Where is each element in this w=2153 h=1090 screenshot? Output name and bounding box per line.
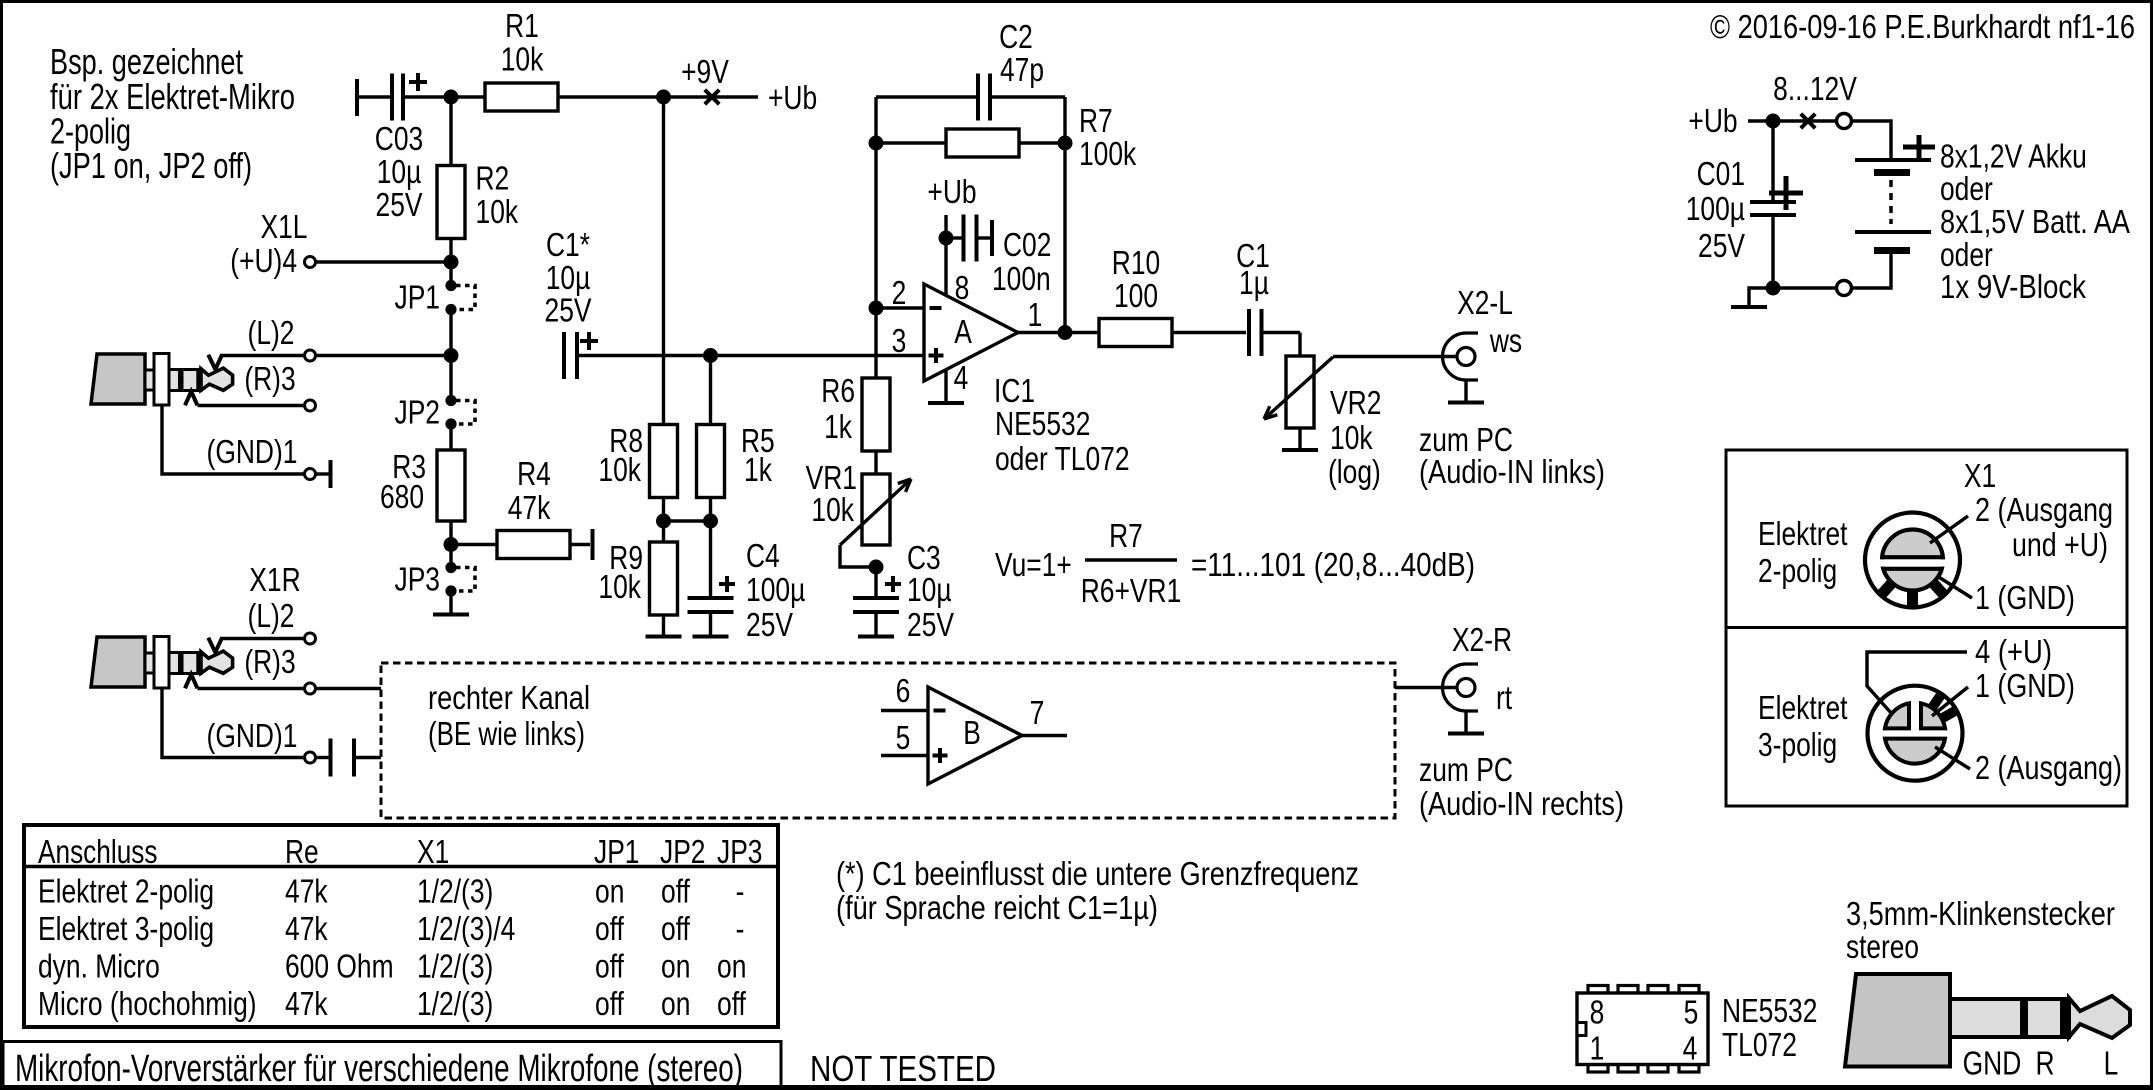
svg-text:X2-R: X2-R: [1452, 621, 1512, 658]
svg-text:A: A: [954, 313, 972, 350]
svg-text:6: 6: [896, 672, 911, 709]
svg-text:L: L: [2104, 1045, 2119, 1082]
pin line 2 Ausgang bottom: [1935, 747, 2122, 786]
resistor R4: [451, 455, 593, 560]
svg-text:1/2/(3): 1/2/(3): [417, 873, 493, 910]
wire feedback left vertical: [874, 97, 877, 143]
connector X2-L: [1443, 284, 1523, 403]
label IC1: [994, 372, 1130, 477]
svg-text:VR2: VR2: [1330, 384, 1381, 421]
dashed box right channel: [381, 663, 1395, 818]
svg-text:off: off: [595, 985, 625, 1022]
svg-text:10µ: 10µ: [546, 259, 591, 296]
pin line 1 GND bottom: [1932, 667, 2075, 716]
svg-text:Mikrofon-Vorverstärker für ver: Mikrofon-Vorverstärker für verschiedene …: [15, 1048, 743, 1090]
resistor R2: [437, 97, 518, 262]
capacitor C4: [688, 521, 806, 643]
capacitor C01: [1686, 121, 1803, 288]
svg-text:dyn. Micro: dyn. Micro: [38, 948, 160, 985]
svg-text:GND: GND: [1963, 1045, 2022, 1082]
svg-text:600 Ohm: 600 Ohm: [285, 948, 394, 985]
svg-text:on: on: [595, 873, 624, 910]
svg-text:(L)2: (L)2: [248, 314, 295, 351]
svg-text:X1R: X1R: [249, 561, 300, 598]
svg-text:X1: X1: [1964, 457, 1996, 494]
wire pin2 node down to R6: [874, 308, 877, 378]
Elektret 2-polig connector drawing: [1865, 513, 1960, 608]
label Elektret 2-polig: [1758, 515, 1848, 589]
op-amp A pin 4 ground: [928, 359, 968, 403]
svg-text:10µ: 10µ: [377, 153, 422, 190]
svg-text:680: 680: [380, 478, 424, 515]
resistor R5: [697, 356, 775, 498]
svg-text:on: on: [661, 948, 690, 985]
svg-text:off: off: [595, 910, 625, 947]
svg-text:X2-L: X2-L: [1457, 284, 1513, 321]
svg-text:25V: 25V: [545, 292, 592, 329]
ground below VR2: [1282, 448, 1318, 452]
svg-text:(R)3: (R)3: [244, 360, 295, 397]
svg-text:JP2: JP2: [395, 394, 441, 431]
svg-text:10k: 10k: [476, 193, 519, 230]
svg-text:C01: C01: [1697, 155, 1745, 192]
ground supply: [1731, 288, 1773, 307]
title box: [3, 1042, 781, 1090]
svg-text:B: B: [963, 714, 981, 751]
svg-text:+Ub: +Ub: [927, 173, 976, 210]
svg-text:R6+VR1: R6+VR1: [1081, 572, 1182, 609]
X1R tip contact chevron: [208, 638, 222, 653]
svg-text:25V: 25V: [1698, 227, 1745, 264]
svg-text:R4: R4: [517, 455, 551, 492]
svg-text:(JP1 on, JP2 off): (JP1 on, JP2 off): [50, 145, 252, 186]
op-amp A pin 8 supply: [927, 173, 976, 306]
svg-text:47k: 47k: [285, 873, 328, 910]
resistor R9: [598, 521, 677, 635]
wire X1L (R)3: [198, 360, 316, 411]
svg-text:47k: 47k: [508, 489, 551, 526]
battery options text: [1940, 138, 2130, 306]
svg-text:8...12V: 8...12V: [1773, 70, 1857, 107]
node C01 bottom junction: [1766, 281, 1781, 296]
svg-text:10k: 10k: [501, 41, 544, 78]
ground below C4: [693, 635, 729, 639]
svg-text:off: off: [595, 948, 625, 985]
op-amp U1A: [924, 284, 1018, 381]
+9V supply terminal: [664, 53, 759, 104]
wire feedback right vertical: [1063, 97, 1066, 143]
node C02 junction: [939, 231, 954, 246]
svg-text:(BE wie links): (BE wie links): [428, 715, 585, 752]
wire X1L (L)2: [220, 314, 451, 361]
svg-text:8: 8: [1590, 994, 1605, 1031]
connection table: [24, 825, 778, 1027]
wire node to op-amp pin3: [711, 354, 925, 357]
battery cells: [1855, 135, 1935, 251]
svg-text:3: 3: [892, 322, 907, 359]
gain formula: [995, 517, 1475, 609]
svg-text:(*) C1 beeinflusst die untere: (*) C1 beeinflusst die untere Grenzfrequ…: [836, 855, 1359, 892]
wire X1R (L)2: [220, 561, 316, 644]
svg-text:8: 8: [955, 269, 970, 306]
svg-text:NE5532: NE5532: [1722, 992, 1817, 1029]
svg-text:8x1,2V Akku: 8x1,2V Akku: [1940, 138, 2087, 175]
svg-text:4: 4: [1683, 1030, 1698, 1067]
svg-text:und +U): und +U): [2012, 526, 2108, 563]
svg-text:47p: 47p: [1000, 51, 1044, 88]
svg-text:Elektret 2-polig: Elektret 2-polig: [38, 873, 214, 910]
node R5 top junction: [703, 348, 718, 363]
Elektret pinout box: [1726, 450, 2127, 806]
svg-text:2 (Ausgang): 2 (Ausgang): [1975, 749, 2122, 786]
svg-text:4 (+U): 4 (+U): [1975, 633, 2052, 670]
X1L tip contact chevron: [208, 355, 222, 370]
note C1 footnote: [836, 855, 1359, 926]
svg-text:4: 4: [954, 359, 969, 396]
svg-text:10k: 10k: [1330, 419, 1373, 456]
jumper JP2: [395, 356, 476, 451]
wire X1L (GND)1: [162, 406, 331, 488]
wire return to C01: [1773, 286, 1836, 289]
svg-text:=11...101 (20,8...40dB): =11...101 (20,8...40dB): [1191, 546, 1475, 583]
svg-text:(R)3: (R)3: [244, 643, 295, 680]
svg-text:NOT TESTED: NOT TESTED: [810, 1048, 996, 1089]
node R3/R4 junction: [444, 537, 459, 552]
svg-text:+Ub: +Ub: [1688, 102, 1737, 139]
label rechter Kanal: [428, 679, 590, 752]
capacitor C03: [357, 73, 451, 223]
svg-text:10k: 10k: [598, 568, 641, 605]
svg-text:10µ: 10µ: [907, 571, 952, 608]
svg-text:off: off: [717, 985, 747, 1022]
svg-text:3-polig: 3-polig: [1758, 726, 1837, 763]
IC package NE5532 DIP-8: [1577, 986, 1708, 1073]
svg-text:off: off: [661, 910, 691, 947]
potentiometer VR2: [1264, 333, 1381, 491]
svg-text:1x 9V-Block: 1x 9V-Block: [1940, 268, 2086, 305]
svg-text:Elektret 3-polig: Elektret 3-polig: [38, 910, 214, 947]
svg-text:oder TL072: oder TL072: [995, 440, 1130, 477]
svg-text:-: -: [736, 873, 745, 910]
svg-text:© 2016-09-16 P.E.Burkhardt nf1: © 2016-09-16 P.E.Burkhardt nf1-16: [1710, 8, 2135, 45]
resistor R10: [1099, 244, 1246, 347]
node R7 right: [1058, 136, 1073, 151]
jumper JP3: [395, 545, 476, 598]
svg-text:C4: C4: [746, 537, 780, 574]
svg-text:R7: R7: [1109, 517, 1143, 554]
svg-text:JP3: JP3: [395, 561, 441, 598]
svg-text:Micro (hochohmig): Micro (hochohmig): [38, 985, 257, 1022]
battery connector plug circle top: [1837, 114, 1852, 129]
node C01 top junction: [1766, 114, 1781, 129]
svg-text:100k: 100k: [1079, 135, 1137, 172]
node divider junction left: [656, 514, 671, 529]
svg-text:C02: C02: [1003, 226, 1051, 263]
svg-text:10k: 10k: [811, 491, 854, 528]
node pin2 junction: [869, 301, 884, 316]
svg-text:Elektret: Elektret: [1758, 515, 1848, 552]
svg-text:3,5mm-Klinkenstecker: 3,5mm-Klinkenstecker: [1846, 895, 2115, 932]
svg-text:100µ: 100µ: [746, 571, 805, 608]
label 3,5mm-Klinkenstecker: [1846, 895, 2115, 965]
resistor R8: [598, 422, 677, 498]
svg-text:2 (Ausgang: 2 (Ausgang: [1975, 491, 2113, 528]
svg-text:TL072: TL072: [1722, 1026, 1797, 1063]
note text block top-left: [50, 41, 295, 186]
jumper JP1: [395, 262, 476, 356]
svg-text:rt: rt: [1496, 679, 1512, 716]
wire to battery plus: [1852, 121, 1891, 160]
svg-text:1: 1: [1590, 1030, 1605, 1067]
svg-text:(log): (log): [1328, 453, 1381, 490]
svg-text:1/2/(3): 1/2/(3): [417, 948, 493, 985]
wire +Ub to battery: [1748, 70, 1857, 128]
pin line 1 GND top: [1937, 576, 2075, 616]
capacitor C3: [853, 539, 954, 643]
wire X1R (GND)1: [162, 689, 381, 777]
wire +9V rail down to R8: [662, 97, 665, 425]
svg-text:(+U)4: (+U)4: [230, 242, 297, 279]
label NE5532 TL072: [1722, 992, 1817, 1063]
wire C1* to node: [579, 354, 711, 357]
copyright text: [1710, 8, 2135, 45]
wire pin2: [876, 306, 924, 309]
svg-text:C03: C03: [375, 120, 423, 157]
svg-text:off: off: [661, 873, 691, 910]
label +Ub left: [768, 79, 817, 116]
svg-text:100: 100: [1114, 277, 1158, 314]
node R7 left: [869, 136, 884, 151]
ground below R9: [646, 635, 682, 639]
wire VR2 wiper to X2-L: [1333, 355, 1457, 358]
svg-text:zum PC: zum PC: [1419, 751, 1513, 788]
svg-text:on: on: [717, 948, 746, 985]
svg-text:Vu=1+: Vu=1+: [995, 546, 1072, 583]
svg-text:1k: 1k: [744, 451, 772, 488]
svg-text:rechter Kanal: rechter Kanal: [428, 679, 590, 716]
svg-text:-: -: [736, 910, 745, 947]
svg-text:(GND)1: (GND)1: [207, 433, 298, 470]
svg-text:X1: X1: [417, 833, 449, 870]
svg-text:+Ub: +Ub: [768, 79, 817, 116]
svg-text:NE5532: NE5532: [995, 405, 1090, 442]
label Elektret 3-polig: [1758, 689, 1848, 763]
svg-text:IC1: IC1: [994, 372, 1035, 409]
X1L ring contact chevron: [185, 391, 197, 405]
svg-text:R10: R10: [1112, 244, 1160, 281]
connector X1L pin 4 terminal: [230, 208, 451, 279]
svg-text:JP2: JP2: [660, 833, 706, 870]
svg-text:Anschluss: Anschluss: [38, 833, 158, 870]
svg-text:1/2/(3)/4: 1/2/(3)/4: [417, 910, 515, 947]
capacitor C2: [876, 18, 1065, 121]
label zum PC rechts: [1419, 751, 1624, 822]
svg-text:25V: 25V: [376, 186, 423, 223]
node +9V rail junction: [656, 90, 671, 105]
svg-text:100µ: 100µ: [1686, 190, 1745, 227]
svg-text:1/2/(3): 1/2/(3): [417, 985, 493, 1022]
svg-text:100n: 100n: [992, 260, 1051, 297]
svg-text:R1: R1: [505, 7, 539, 44]
wire battery minus return: [1852, 251, 1891, 289]
svg-text:2-polig: 2-polig: [1758, 552, 1837, 589]
svg-text:47k: 47k: [285, 985, 328, 1022]
wire R8-R5 bottoms: [664, 498, 711, 522]
svg-text:ws: ws: [1489, 322, 1522, 359]
node VR1 wiper junction: [869, 560, 884, 575]
svg-text:(L)2: (L)2: [248, 597, 295, 634]
wire R7 junction to output: [1063, 143, 1066, 333]
svg-text:(GND)1: (GND)1: [207, 717, 298, 754]
svg-text:(für Sprache reicht C1=1µ): (für Sprache reicht C1=1µ): [836, 889, 1158, 926]
svg-text:Elektret: Elektret: [1758, 689, 1848, 726]
connector X2-R: [1443, 621, 1513, 734]
svg-text:R: R: [2035, 1045, 2054, 1082]
svg-text:C2: C2: [999, 18, 1033, 55]
wire feedback to pin2: [874, 143, 877, 308]
pin line 4 +U bottom: [1867, 633, 2052, 714]
node divider junction right: [703, 514, 718, 529]
resistor R1: [451, 7, 663, 111]
resistor R3: [380, 448, 465, 545]
ground below C3: [858, 635, 894, 639]
microphone jack X1R: [91, 637, 233, 689]
label zum PC links: [1419, 421, 1605, 490]
ground below JP3: [433, 591, 469, 615]
Elektret 3-polig connector drawing: [1868, 686, 1963, 781]
svg-text:25V: 25V: [746, 606, 793, 643]
potentiometer VR1: [806, 459, 911, 567]
labels GND R L: [1963, 1045, 2119, 1082]
svg-text:JP1: JP1: [395, 279, 441, 316]
svg-text:47k: 47k: [285, 910, 328, 947]
X1R ring contact chevron: [185, 674, 197, 688]
svg-text:1µ: 1µ: [1239, 264, 1269, 301]
node output junction: [1058, 325, 1073, 340]
svg-text:1 (GND): 1 (GND): [1975, 667, 2075, 704]
microphone jack X1L: [91, 354, 233, 406]
svg-text:JP1: JP1: [594, 833, 640, 870]
svg-text:8x1,5V Batt. AA: 8x1,5V Batt. AA: [1940, 203, 2130, 240]
capacitor C1*: [545, 226, 599, 379]
wire op-amp output: [1018, 331, 1099, 334]
svg-text:(Audio-IN rechts): (Audio-IN rechts): [1419, 785, 1624, 822]
svg-text:25V: 25V: [907, 606, 954, 643]
wire X1R (R)3: [198, 643, 382, 694]
svg-text:R6: R6: [821, 372, 855, 409]
svg-text:2: 2: [892, 274, 907, 311]
battery connector plug circle bottom: [1837, 281, 1852, 296]
svg-text:oder: oder: [1940, 170, 1993, 207]
svg-text:on: on: [661, 985, 690, 1022]
gain network R6: [821, 372, 890, 474]
svg-text:JP3: JP3: [717, 833, 763, 870]
pin line 2 Ausgang top: [1930, 491, 2113, 563]
svg-text:stereo: stereo: [1846, 928, 1919, 965]
svg-text:5: 5: [1684, 994, 1699, 1031]
svg-text:Re: Re: [285, 833, 319, 870]
svg-text:7: 7: [1030, 694, 1045, 731]
wire box to X2-R: [1395, 686, 1457, 689]
op-amp U1B: [881, 672, 1067, 784]
svg-text:C1*: C1*: [546, 226, 590, 263]
resistor R7: [876, 102, 1137, 172]
3.5mm jack drawing: [1845, 974, 2130, 1067]
svg-text:1k: 1k: [824, 408, 852, 445]
svg-text:5: 5: [896, 719, 911, 756]
svg-text:10k: 10k: [598, 451, 641, 488]
node signal junction left: [444, 348, 459, 363]
node C03/R1/R2 junction: [444, 90, 459, 105]
svg-text:R7: R7: [1079, 102, 1113, 139]
svg-text:R2: R2: [476, 160, 510, 197]
capacitor C1 output: [1236, 237, 1300, 356]
svg-text:X1L: X1L: [261, 208, 308, 245]
node X1L pin4 junction: [444, 255, 459, 270]
svg-text:1: 1: [1028, 296, 1043, 333]
capacitor C02: [946, 215, 1051, 298]
svg-text:(Audio-IN links): (Audio-IN links): [1419, 453, 1605, 490]
svg-text:1 (GND): 1 (GND): [1975, 579, 2075, 616]
svg-text:+9V: +9V: [681, 53, 729, 90]
